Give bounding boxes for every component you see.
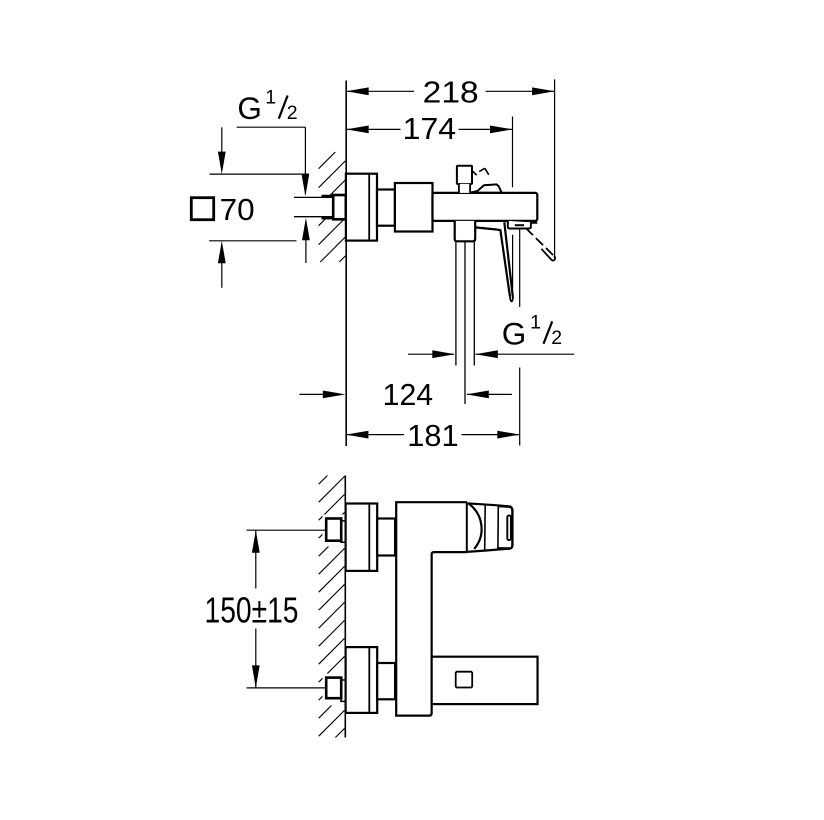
svg-text:124: 124 bbox=[383, 377, 434, 412]
svg-text:181: 181 bbox=[407, 418, 458, 453]
svg-text:150±15: 150±15 bbox=[205, 590, 299, 631]
svg-text:218: 218 bbox=[423, 74, 479, 109]
svg-text:174: 174 bbox=[403, 111, 457, 146]
svg-text:2: 2 bbox=[551, 327, 562, 349]
svg-text:2: 2 bbox=[287, 102, 298, 124]
svg-text:1: 1 bbox=[265, 87, 276, 109]
svg-text:70: 70 bbox=[220, 192, 255, 227]
svg-text:G: G bbox=[502, 315, 527, 351]
svg-text:1: 1 bbox=[530, 312, 541, 334]
svg-text:G: G bbox=[237, 90, 262, 126]
